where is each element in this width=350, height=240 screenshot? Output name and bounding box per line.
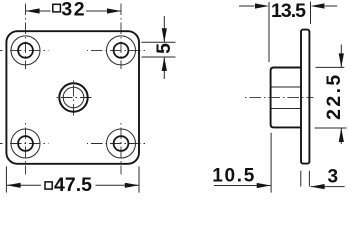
svg-text:47.5: 47.5 (54, 174, 92, 194)
svg-text:3: 3 (328, 167, 339, 188)
svg-text:13.5: 13.5 (271, 0, 306, 22)
svg-text:5: 5 (153, 43, 175, 54)
svg-text:32: 32 (61, 0, 86, 21)
svg-text:10.5: 10.5 (212, 165, 256, 186)
svg-text:22.5: 22.5 (323, 72, 345, 120)
